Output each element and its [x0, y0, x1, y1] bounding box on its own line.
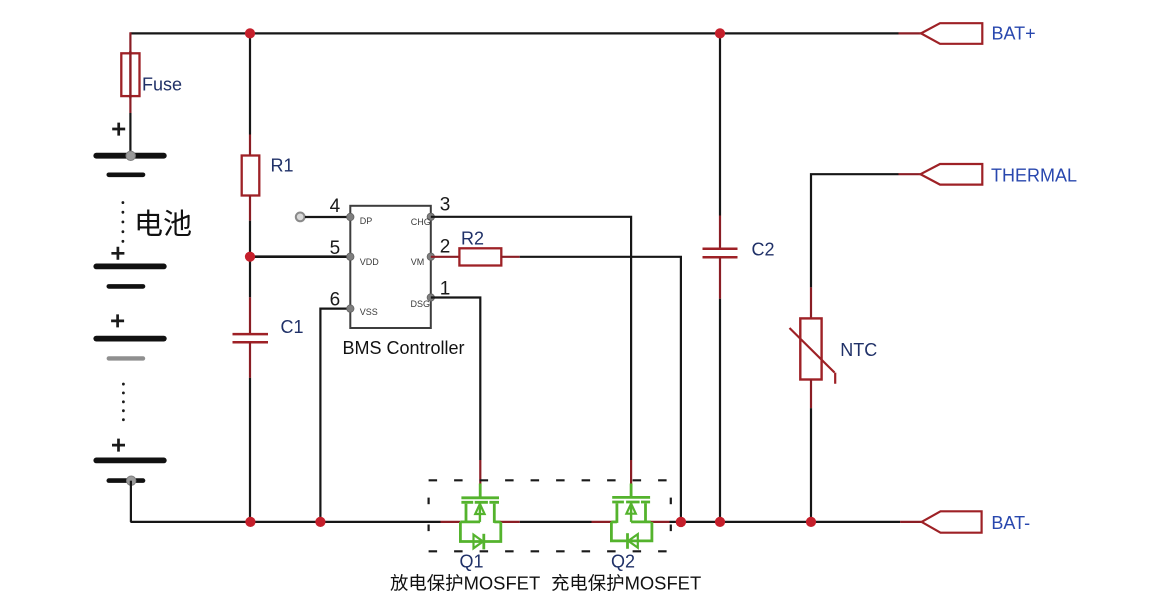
junction dot: top bus / R1	[245, 28, 255, 38]
wire: bottom BAT- bus	[130, 521, 921, 523]
svg-text:Q1: Q1	[460, 552, 484, 572]
battery cell B3 plus	[111, 314, 124, 327]
svg-text:Fuse: Fuse	[142, 75, 182, 95]
net flag THERMAL	[921, 164, 983, 185]
battery cell B1 plus	[112, 123, 125, 136]
wire: top bus to R1	[249, 33, 251, 134]
svg-text:CHG: CHG	[411, 217, 431, 227]
battery cell B3 plates	[96, 339, 164, 359]
wire: VDD node to pin 5	[250, 255, 350, 258]
battery terminal dot bottom	[127, 476, 136, 485]
junction dot: bottom bus / VSS	[315, 517, 325, 527]
junction dot: bottom bus / C1	[245, 517, 255, 527]
wire: top bus to C2	[719, 33, 721, 215]
resistor R1	[242, 135, 260, 221]
pin 3 dot	[427, 213, 434, 220]
wire: VDD node down to C1	[249, 257, 251, 298]
junction dot: top bus / C2	[715, 28, 725, 38]
no-connect terminal at pin 4	[296, 213, 305, 222]
battery cell B2 plus	[111, 247, 124, 260]
wire: pin 3 CHG to Q2 gate	[431, 217, 631, 484]
capacitor C1	[233, 297, 269, 378]
svg-text:DP: DP	[360, 216, 373, 226]
svg-text:充电保护MOSFET: 充电保护MOSFET	[551, 573, 701, 594]
net flag BAT+	[921, 23, 982, 44]
junction dot: bottom bus / C2	[715, 517, 725, 527]
svg-text:THERMAL: THERMAL	[991, 166, 1077, 186]
wire: top BAT+ bus	[130, 32, 921, 34]
battery dotted continuation upper	[122, 203, 125, 248]
wire: pin 6 VSS to bottom bus	[320, 309, 350, 522]
pin 5 dot	[347, 253, 354, 260]
wire: R2 to Q2 drain branch	[501, 257, 681, 522]
svg-text:1: 1	[440, 279, 451, 300]
wire: R1 to VDD node	[249, 221, 251, 257]
net flag BAT-	[922, 511, 982, 532]
svg-text:3: 3	[440, 195, 451, 216]
fuse Fuse	[121, 32, 139, 113]
svg-text:VSS: VSS	[360, 307, 378, 317]
battery terminal dot top	[126, 151, 135, 160]
battery cell B2 plates	[96, 266, 164, 286]
svg-text:4: 4	[330, 196, 341, 217]
transistor Q1 (discharge MOSFET)	[460, 484, 501, 550]
junction dot: VDD node	[245, 252, 255, 262]
pin 2 dot	[427, 253, 434, 260]
wire: THERMAL flag to NTC	[811, 174, 921, 318]
battery dotted continuation lower	[122, 384, 125, 428]
battery cell B4 plates	[96, 460, 164, 480]
dashed protection-FET box	[429, 480, 671, 551]
wire: pin 2 VM to R2	[431, 256, 460, 258]
wire: battery negative to bottom bus	[130, 481, 132, 522]
wire: NC to pin 4	[305, 216, 350, 218]
svg-text:BAT+: BAT+	[992, 24, 1036, 44]
resistor R2	[459, 248, 501, 265]
wire: C1 to bottom bus	[249, 378, 251, 522]
svg-text:C1: C1	[281, 317, 304, 337]
svg-text:C2: C2	[752, 239, 775, 259]
svg-text:5: 5	[330, 238, 341, 259]
svg-text:BAT-: BAT-	[991, 513, 1030, 533]
transistor Q2 (charge MOSFET)	[611, 484, 652, 549]
svg-text:R1: R1	[271, 156, 294, 176]
battery cell B4 plus	[112, 439, 125, 452]
battery cell B1 plates	[96, 156, 164, 175]
svg-text:2: 2	[440, 236, 451, 257]
junction dot: bottom bus / NTC	[806, 517, 816, 527]
svg-text:放电保护MOSFET: 放电保护MOSFET	[390, 573, 540, 594]
svg-text:NTC: NTC	[840, 340, 877, 360]
wire: NTC to bottom bus	[810, 380, 812, 522]
thermistor NTC	[790, 318, 836, 383]
wire: pin 1 DSG to Q1 gate	[431, 298, 481, 484]
wire: fuse to battery	[129, 113, 131, 153]
svg-text:R2: R2	[461, 229, 484, 249]
svg-text:VM: VM	[411, 257, 425, 267]
junction dot: bottom bus / VM branch	[676, 517, 686, 527]
svg-text:BMS Controller: BMS Controller	[343, 338, 465, 358]
pin 4 dot	[347, 213, 354, 220]
wire: C2 to bottom bus	[719, 299, 721, 522]
svg-text:6: 6	[330, 289, 341, 310]
capacitor C2	[703, 216, 738, 299]
op-amp U1 BMS Controller body	[350, 206, 431, 328]
svg-text:DSG: DSG	[411, 299, 431, 309]
pin 1 dot	[427, 294, 434, 301]
pin 6 dot	[347, 305, 354, 312]
svg-text:电池: 电池	[134, 208, 192, 241]
svg-text:VDD: VDD	[360, 257, 380, 267]
svg-text:Q2: Q2	[611, 552, 635, 572]
